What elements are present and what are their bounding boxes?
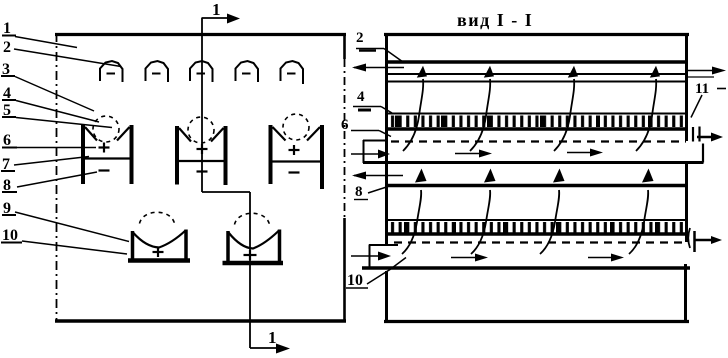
leader line 3 (15, 77, 94, 112)
upper tier: thick ceiling line (385, 60, 687, 63)
upper tier: thin line b (388, 81, 686, 83)
leader line 5 (16, 118, 112, 128)
section view: right wall (686, 33, 687, 321)
section line I-I vertical lower run (249, 192, 251, 348)
label 10 (1, 227, 22, 244)
lower tier: perforated grid band (385, 220, 687, 234)
drinker A outline (128, 230, 190, 261)
upper tier: airflow arrow 1 (403, 66, 427, 151)
label 11 (section view) (691, 81, 726, 118)
lower tier: conveyor arrow 1 (451, 254, 488, 262)
label 1 (2, 20, 16, 37)
housing outline: right edge of plan view (343, 34, 346, 321)
hood 4 (top row arch) (236, 61, 259, 82)
leader line 2 (14, 49, 121, 67)
feeder C dashed circle (283, 114, 309, 140)
leader line 10 (22, 241, 127, 254)
lower tier: airflow arrow 3 (540, 169, 565, 255)
label 10 (section view) (346, 258, 406, 290)
section marker 1 (bottom) (268, 328, 277, 347)
feeder B right bar (224, 126, 228, 185)
svg-text:1: 1 (212, 0, 221, 19)
section line I-I vertical upper run (201, 18, 203, 193)
lower tier: left exit arrow (352, 172, 403, 180)
upper tier: thin line a (388, 73, 686, 75)
section marker 1 (top) (212, 0, 221, 19)
drinker A plus mark (153, 247, 164, 257)
leader line 8 (17, 172, 97, 187)
svg-text:11: 11 (695, 81, 709, 97)
upper tier: right exit arrow (687, 67, 726, 78)
label 4 (2, 85, 16, 102)
lower tier: airflow arrow 2 (471, 169, 496, 255)
upper tier: conveyor arrow 1 (455, 150, 492, 158)
svg-text:8: 8 (355, 184, 363, 200)
feeder A mid line (83, 157, 132, 159)
svg-text:4: 4 (357, 89, 365, 105)
lower tier: tray right spout (688, 228, 694, 252)
feeder B V-notch (179, 128, 224, 142)
feeder B dashed circle (188, 117, 214, 143)
svg-text:6: 6 (341, 117, 349, 133)
lower tier: conveyor arrow 2 (588, 254, 624, 262)
leader line 1 (15, 37, 77, 48)
feeder B mid line (177, 160, 226, 162)
leader line 4 (16, 101, 99, 123)
lower tier: right outlet arrow (695, 236, 722, 244)
feeder A left bar (81, 125, 85, 184)
upper tier: airflow arrow 4 (636, 66, 660, 151)
label 3 (1, 61, 15, 78)
feeder C minus mark (289, 171, 300, 173)
lower tier: thick ceiling line (388, 184, 687, 187)
feeder B minus mark (197, 170, 208, 172)
label 2 (3, 39, 11, 56)
label 4 (section view) (353, 89, 392, 113)
upper tier: conveyor arrow 2 (567, 149, 603, 157)
upper tier: tray bottom (363, 161, 688, 164)
feeder B plus mark (197, 144, 208, 154)
view title (457, 10, 533, 30)
feeder B left bar (175, 126, 179, 185)
feeder A minus mark (99, 169, 110, 171)
svg-text:10: 10 (347, 272, 363, 289)
upper tier: perforated grid band (385, 114, 688, 130)
section line I-I top arrow (202, 14, 240, 24)
lower tier: airflow arrow 4 (629, 169, 654, 255)
upper tier: left exit arrow (352, 64, 404, 72)
label 8 (2, 177, 17, 194)
housing outline: bottom border of plan view (55, 319, 346, 322)
leader line 7 (14, 157, 89, 166)
label 7 (1, 156, 15, 173)
label 5 (2, 102, 16, 119)
section line I-I jog (202, 191, 250, 193)
feeder A plus mark (99, 143, 110, 153)
svg-text:1: 1 (3, 20, 11, 37)
upper tier: right outlet arrow (697, 133, 723, 142)
section view: bottom border (384, 320, 689, 323)
leader line 6 (17, 147, 96, 149)
section view: left wall (385, 33, 388, 321)
lower tier: tray left spout (369, 245, 398, 269)
svg-text:2: 2 (3, 39, 11, 56)
feeder A right bar (130, 125, 134, 184)
housing outline: top border of plan view (55, 33, 346, 36)
svg-text:10: 10 (2, 227, 18, 244)
label 2 (section view) (356, 30, 403, 62)
feeder A V-notch (85, 127, 130, 141)
svg-text:2: 2 (356, 30, 364, 46)
svg-text:вид I - I: вид I - I (457, 10, 533, 30)
drinker A dashed arc (140, 212, 175, 223)
hood 5 (top row arch) (281, 61, 304, 84)
hood 2 (top row arch) (146, 61, 169, 82)
upper tier: airflow arrow 2 (470, 66, 494, 151)
label 8 (section view) (354, 184, 388, 200)
feeder C plus mark (289, 145, 300, 155)
drinker B outline (223, 230, 284, 264)
housing outline: left dash-dot edge of plan view (56, 33, 58, 322)
feeder C right bar (320, 125, 324, 189)
upper tier: airflow arrow 3 (554, 66, 578, 151)
feeder C left bar (269, 125, 273, 184)
upper tier: conveyor dashed line (391, 140, 686, 142)
hood 3 (top row arch) (190, 61, 213, 82)
lower tier: conveyor dashed line (394, 241, 683, 243)
svg-text:1: 1 (268, 328, 277, 347)
section line I-I bottom arrow (250, 344, 290, 354)
leader line 9 (15, 212, 129, 242)
feeder C V-notch (273, 127, 321, 141)
lower tier: tray bottom (362, 266, 690, 269)
drinker B dashed arc (235, 213, 270, 224)
upper tier: tray right spout (688, 127, 704, 163)
label 6 (section view) (341, 117, 391, 137)
upper tier: inlet arrow (351, 150, 390, 159)
drinker B plus mark (244, 250, 257, 260)
section view: top border (384, 33, 689, 36)
upper tier: tray left spout (363, 140, 388, 163)
lower tier: inlet arrow (351, 252, 391, 261)
feeder A dashed circle (93, 116, 119, 142)
label 6 (2, 132, 17, 149)
label 9 (2, 200, 16, 217)
hood 1 (top row arch) (100, 61, 123, 82)
svg-text:6: 6 (3, 132, 11, 149)
feeder C mid line (271, 160, 323, 162)
lower tier: airflow arrow 1 (402, 169, 427, 255)
